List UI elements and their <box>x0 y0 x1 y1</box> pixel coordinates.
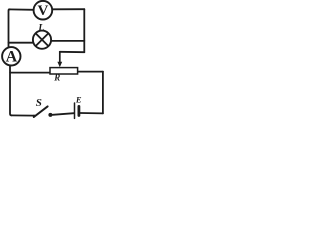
wire rheostat left lead <box>10 72 50 74</box>
wire slider horizontal <box>60 51 85 53</box>
wire left rail top <box>9 9 11 47</box>
svg-text:R: R <box>53 73 60 83</box>
wire voltmeter right lead <box>52 8 84 10</box>
wire ammeter bottom rail <box>10 65 12 115</box>
svg-text:S: S <box>36 97 42 109</box>
wire lamp left lead <box>9 42 35 44</box>
svg-text:E: E <box>75 95 82 105</box>
rheostat R (slide resistor) <box>50 52 78 83</box>
wire lamp right lead <box>51 40 84 42</box>
lamp L <box>33 23 51 49</box>
wire battery to switch <box>53 113 74 115</box>
wire bottom left <box>11 114 34 116</box>
wire right drop to slider <box>83 9 85 52</box>
slider arrow <box>59 52 61 63</box>
wire rheostat right lead <box>78 71 103 73</box>
ammeter A1 <box>2 47 20 66</box>
wire right rail <box>102 72 104 114</box>
wire voltmeter left lead <box>9 8 34 10</box>
battery E <box>75 95 82 119</box>
svg-text:L: L <box>37 23 44 34</box>
svg-text:V: V <box>37 3 48 19</box>
switch S <box>33 97 53 118</box>
voltmeter V1 <box>34 1 53 20</box>
svg-text:A: A <box>6 49 18 66</box>
wire bottom right <box>80 112 103 114</box>
